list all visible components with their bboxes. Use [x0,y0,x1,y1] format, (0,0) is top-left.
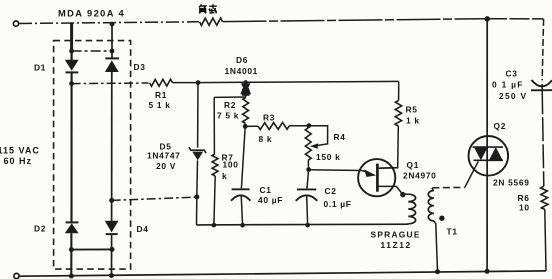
node Q2 bottom rail junction [485,269,490,274]
svg-text:115 VAC: 115 VAC [0,145,40,155]
diode D2 [65,222,79,233]
node bridge left bottom junction [69,247,74,252]
svg-text:8 k: 8 k [259,134,273,144]
label D6 1N4001 [225,55,259,76]
wire secondary to gate (dashed) [432,186,464,188]
wire T1 secondary bottom lead [434,221,438,272]
svg-text:2N4970: 2N4970 [403,171,437,181]
svg-text:250 V: 250 V [499,91,527,101]
svg-text:D1: D1 [34,63,46,73]
bridge rectifier module dashed outline [54,41,131,270]
svg-text:1N4001: 1N4001 [225,66,259,76]
label Q2 2N5569 [493,121,530,188]
wire R7 top lead [213,97,215,154]
wire C2 top lead [307,170,309,189]
svg-text:Q2: Q2 [494,121,507,131]
svg-text:D4: D4 [137,224,149,234]
wire D5 node to common rail corner [196,197,198,225]
label D5 1N4747 20 V [147,141,181,171]
transistor Q1 (UJT 2N4970) [358,159,402,196]
wire R3 to R4 node [289,125,309,127]
wire left leg lower [70,233,72,276]
wire bridge bottom connector [71,248,112,250]
node D5 / bridge DC- junction [194,194,199,199]
wire top rail to right corner [487,18,544,20]
wire left leg mid [70,72,72,222]
load resistor (zigzag in AC line) [200,18,223,25]
wire Q2 anode vertical [486,19,488,271]
wire R4 bottom lead [307,160,309,169]
resistor R4 [305,128,311,160]
node bridge right-top junction [110,49,115,54]
node R1 / D5 junction [196,80,201,85]
wire bridge top connector [72,50,112,52]
label C2 0.1 uF [324,186,352,209]
capacitor C1 [231,189,250,201]
wire bridge right leg upper [111,24,113,58]
inductor T1 primary winding [408,194,415,224]
svg-text:20 V: 20 V [156,161,176,171]
svg-text:R1: R1 [155,90,167,100]
wire R7 bottom lead [214,176,215,225]
resistor R7 [212,154,218,176]
wire DC+ from bridge to R1 [72,82,149,85]
svg-text:R4: R4 [334,132,346,142]
svg-text:1 k: 1 k [406,116,420,126]
svg-text:0.1 µF: 0.1 µF [324,199,352,209]
resistor R6 [541,186,548,209]
wire C2 bottom lead [306,196,309,226]
svg-text:Q1: Q1 [407,160,420,170]
node R7 common rail junction [212,223,217,228]
svg-text:10: 10 [519,202,530,212]
node T1 primary top (phasing dot) [400,192,405,197]
wire bottom rail [19,271,546,276]
svg-text:5 1 k: 5 1 k [149,100,171,110]
label R5 1 k [406,104,420,125]
resistor R5 [395,100,402,126]
svg-text:C3: C3 [506,68,518,78]
zener diode D5 [189,147,206,160]
label R4 150 k [316,132,346,162]
node D6 anode junction [244,80,248,84]
node right leg bottom rail junction [109,273,114,278]
svg-text:D6: D6 [236,55,248,65]
node R2 / R3 / C1 junction [243,124,248,129]
wire R5 to Q1 base2 [378,126,399,168]
node C2 common rail junction [305,223,310,228]
svg-text:1N4747: 1N4747 [147,151,181,161]
svg-text:D3: D3 [134,62,146,72]
node bridge bottom connector left [69,274,74,279]
svg-text:C2: C2 [325,186,337,196]
wire R7-R2 top connector [214,96,245,98]
svg-text:k: k [222,171,227,181]
inductor T1 secondary winding [428,191,434,221]
rheostat R4 wiper arrow [310,143,318,148]
svg-text:100: 100 [223,160,239,170]
wire node to D6 [198,81,246,83]
wire bridge left leg upper (AC in drop) [70,23,73,52]
svg-text:11Z12: 11Z12 [381,240,412,250]
label R3 8 k [259,113,276,145]
svg-text:7 5 k: 7 5 k [217,110,239,120]
wire R4 wiper loop [309,126,328,146]
wire DC- from bridge (dash-dot) [112,197,197,200]
svg-text:T1: T1 [447,227,458,237]
label R1 5.1 k [149,90,171,110]
capacitor C3 [531,80,552,90]
label R6 10 [518,193,530,212]
wire emitter from node to Q1 [309,169,362,172]
wire C3 to R6 [542,84,544,186]
wire trigger common rail [197,223,409,226]
svg-text:C1: C1 [260,185,272,195]
wire R2 node to R3 [245,125,258,127]
svg-text:SPRAGUE: SPRAGUE [371,230,421,240]
wire right leg lower [111,234,113,276]
diode D1 [65,60,79,73]
node T1 secondary phasing dot [439,216,444,221]
wire T1 secondary top hook [432,188,434,191]
wire T1 primary top lead [402,193,408,195]
node R3 / R4 junction [306,123,311,128]
node T1 secondary bottom rail junction [435,269,440,274]
node bridge left-top junction [69,49,74,54]
svg-text:40 µF: 40 µF [258,195,283,205]
svg-text:D2: D2 [34,224,46,234]
wire right leg mid [111,72,113,221]
wire C1 top lead [241,126,245,188]
wire R2 bottom lead [244,124,246,127]
node bridge left mid (DC+ tap) [69,81,74,86]
svg-text:R2: R2 [224,100,236,110]
resistor R1 [150,79,173,86]
label SPRAGUE 11Z12 [371,230,421,250]
node C1 common rail junction [240,223,245,228]
svg-text:R5: R5 [406,104,418,114]
triac Q2 (2N5569) [469,136,509,176]
node R4 / C2 / emitter junction [306,167,311,172]
svg-text:MDA 920A 4: MDA 920A 4 [58,9,125,19]
label C3 0.1 uF 250 V [492,68,527,101]
wire top rail right segment [223,19,488,22]
wire top rail left segment [19,22,199,24]
label 115 VAC 60 Hz [0,145,40,166]
svg-text:150 k: 150 k [316,152,340,162]
wire D5 to common node [196,160,199,197]
label C1 40 uF [258,185,283,205]
wire C1 bottom lead [241,196,242,226]
wire DC+ rail to R5 [246,80,399,83]
svg-text:R3: R3 [263,113,275,123]
wire R5 top lead [398,81,400,100]
diode D3 [105,58,119,72]
wire T1 primary bottom to common rail [407,223,410,226]
node right leg top rail junction [110,22,115,27]
svg-text:2N 5569: 2N 5569 [493,177,530,187]
wire left leg D1 lead [70,51,72,60]
wire R1 to node [173,82,199,84]
svg-text:0 1 µF: 0 1 µF [492,80,524,90]
resistor R3 [258,123,289,130]
node junction top-right (Q2 branch) [485,16,490,21]
wire node down to D5 [197,83,199,148]
label R2 7.5k [217,100,239,120]
wire R6 to bottom rail [545,209,546,271]
label load (Chinese fu-zai) [199,4,217,13]
diode D4 [105,221,119,234]
node bridge bottom connector right [110,247,115,252]
resistor R2 [243,97,249,123]
node bridge right mid (DC- tap) [109,198,114,203]
label R7 100 k [222,152,239,181]
svg-text:60 Hz: 60 Hz [4,156,33,166]
label Q1 2N4970 [403,160,437,181]
wire snubber top vertical [542,19,543,80]
capacitor C2 [296,189,318,200]
terminal input bottom-left [14,273,19,278]
wire gate diagonal into Q2 [465,161,479,187]
diode D6 [240,83,251,97]
terminal input top-left [13,21,18,26]
